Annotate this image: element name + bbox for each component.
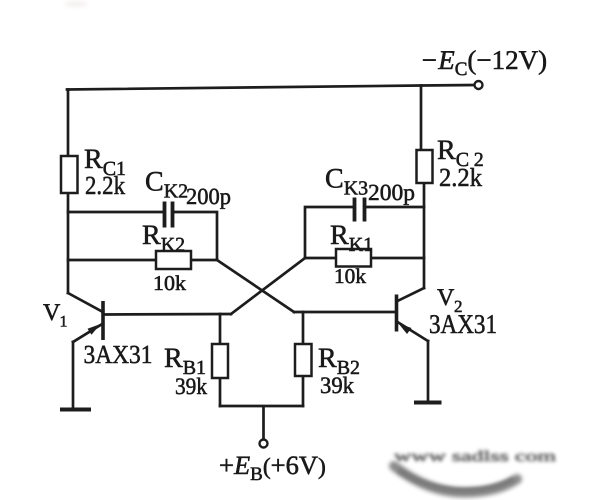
wire supply rail -EC: [67, 85, 474, 90]
wire V1 emitter down: [72, 342, 75, 407]
wire V2 emitter down: [427, 341, 430, 401]
wire RK2 branch: [68, 259, 217, 262]
wire V2 base: [294, 311, 396, 314]
ground V1: [60, 408, 91, 412]
resistor RC2: [417, 150, 433, 183]
wire cross-coupling right to V1 base: [231, 258, 305, 314]
wire CK3 branch: [305, 207, 424, 258]
wire CK2 branch: [68, 212, 217, 260]
svg-text:10k: 10k: [153, 271, 187, 295]
resistor RC1: [61, 156, 78, 193]
wire RK1 branch: [305, 257, 424, 260]
terminal -EC: [475, 81, 483, 89]
capacitor CK2: [165, 202, 173, 228]
svg-text:1: 1: [60, 314, 68, 331]
svg-text:−EC(−12V): −EC(−12V): [420, 45, 547, 80]
transistor V2: [397, 288, 429, 341]
svg-text:3AX31: 3AX31: [429, 309, 497, 339]
capacitor CK3: [355, 198, 365, 222]
wire cross-coupling left to V2 base: [217, 260, 294, 312]
terminal +EB: [260, 440, 268, 448]
wire EB bottom rail: [220, 406, 303, 439]
svg-text:V: V: [43, 300, 61, 326]
transistor V1: [68, 293, 103, 342]
svg-text:39k: 39k: [175, 374, 207, 400]
resistor RK2: [156, 251, 191, 269]
svg-text:10k: 10k: [334, 264, 367, 288]
resistor RB1: [212, 344, 228, 378]
resistor RK1: [336, 249, 371, 267]
resistor RB2: [295, 344, 312, 376]
ground V2: [414, 401, 442, 405]
svg-text:3AX31: 3AX31: [84, 340, 153, 369]
svg-text:200p: 200p: [368, 180, 415, 205]
wire right vertical V2 collector rail: [421, 86, 424, 289]
wire left vertical V1 collector rail: [67, 90, 70, 294]
svg-text:V: V: [437, 285, 455, 311]
svg-text:2.2k: 2.2k: [439, 163, 482, 192]
svg-text:39k: 39k: [320, 373, 354, 399]
svg-text:www sadlss com: www sadlss com: [394, 449, 557, 465]
wire RB2 branch: [302, 312, 305, 406]
svg-text:2.2k: 2.2k: [85, 171, 125, 200]
wire V1 base: [104, 313, 231, 316]
wire RB1 branch: [219, 314, 222, 406]
svg-text:200p: 200p: [186, 184, 231, 209]
svg-text:+EB(+6V): +EB(+6V): [219, 450, 326, 485]
